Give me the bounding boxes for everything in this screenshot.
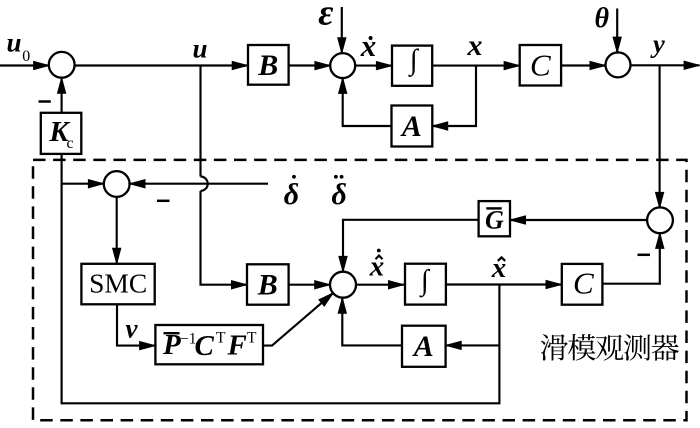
svg-text:θ: θ bbox=[595, 3, 610, 34]
svg-text:0: 0 bbox=[22, 48, 30, 65]
svg-text:ε: ε bbox=[318, 0, 333, 34]
svg-text:A: A bbox=[412, 330, 434, 363]
svg-text:B: B bbox=[257, 268, 278, 301]
svg-text:x: x bbox=[369, 251, 385, 283]
svg-text:u: u bbox=[7, 27, 22, 57]
svg-text:G: G bbox=[485, 206, 504, 235]
svg-text:T: T bbox=[216, 330, 226, 347]
svg-text:c: c bbox=[67, 135, 74, 152]
svg-text:T: T bbox=[247, 330, 257, 347]
svg-text:y: y bbox=[650, 28, 665, 58]
svg-text:x: x bbox=[467, 29, 483, 62]
svg-text:B: B bbox=[257, 49, 278, 82]
svg-text:δ: δ bbox=[332, 178, 347, 211]
svg-text:C: C bbox=[530, 48, 551, 83]
svg-text:δ: δ bbox=[284, 178, 299, 211]
svg-text:x: x bbox=[360, 28, 377, 63]
svg-text:x: x bbox=[491, 252, 507, 284]
svg-text:C: C bbox=[195, 330, 215, 362]
svg-text:C: C bbox=[573, 266, 594, 301]
svg-text:A: A bbox=[400, 110, 422, 143]
svg-text:SMC: SMC bbox=[89, 268, 147, 299]
svg-text:v: v bbox=[126, 314, 139, 344]
svg-text:F: F bbox=[227, 330, 247, 362]
svg-text:u: u bbox=[193, 34, 208, 64]
